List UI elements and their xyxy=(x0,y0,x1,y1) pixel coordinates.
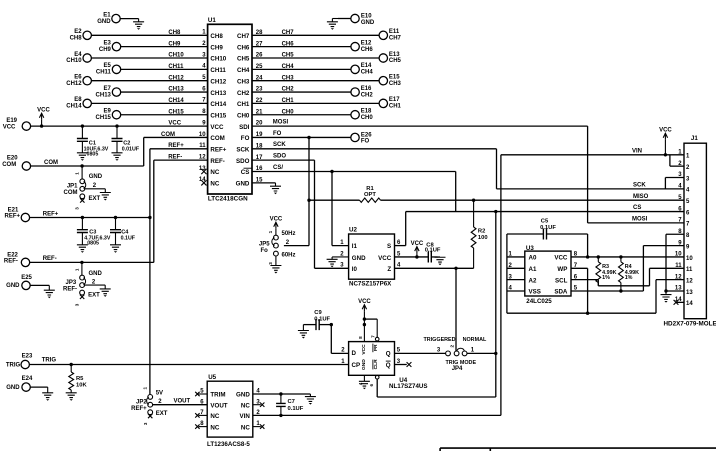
svg-text:C4: C4 xyxy=(121,230,129,236)
svg-text:CP: CP xyxy=(352,362,361,369)
svg-text:0.1UF: 0.1UF xyxy=(540,225,556,231)
svg-text:CH12: CH12 xyxy=(210,78,226,85)
svg-text:E16: E16 xyxy=(361,86,372,92)
U5 NC pin7 X xyxy=(195,413,207,417)
svg-text:REF+: REF+ xyxy=(4,213,20,219)
svg-text:NC7SZ157P6X: NC7SZ157P6X xyxy=(349,281,392,288)
svg-text:12: 12 xyxy=(675,274,682,280)
svg-text:SDO: SDO xyxy=(236,158,250,165)
svg-text:CH0: CH0 xyxy=(237,112,250,119)
svg-text:14: 14 xyxy=(686,301,693,307)
wire MOSI net U1 SDI pin20 to J1 pin7 xyxy=(252,120,684,223)
power VCC arrow at E19 xyxy=(37,108,50,128)
wire U3 ground loop left xyxy=(507,234,525,313)
svg-text:SDA: SDA xyxy=(554,289,568,296)
svg-text:50Hz: 50Hz xyxy=(282,231,296,237)
svg-text:CH13: CH13 xyxy=(168,87,184,93)
wire REF+ riser to U1 pin11 and down to JP2 5V xyxy=(148,143,207,394)
capacitor C2 0.01UF xyxy=(112,124,140,152)
svg-text:CH12: CH12 xyxy=(66,81,82,87)
svg-text:CH9: CH9 xyxy=(99,47,112,53)
svg-text:VOUT: VOUT xyxy=(210,402,227,409)
svg-text:CH8: CH8 xyxy=(70,36,83,42)
svg-text:GND: GND xyxy=(236,392,250,399)
svg-text:MOSI: MOSI xyxy=(273,120,289,126)
svg-text:CH3: CH3 xyxy=(389,81,402,87)
svg-text:J1: J1 xyxy=(691,135,698,142)
svg-text:CH2: CH2 xyxy=(282,87,295,93)
U5 TRIM no-connect X xyxy=(195,392,207,396)
U1 NC pin 13 no-connect X xyxy=(201,169,206,174)
svg-text:GND: GND xyxy=(89,174,103,180)
svg-text:E19: E19 xyxy=(6,118,17,124)
wire CS vertical to U4 CLR xyxy=(377,212,496,397)
svg-text:Q: Q xyxy=(386,362,391,369)
wire VIN vertical J1 pin1 to U5 VIN xyxy=(500,155,502,416)
svg-text:COM: COM xyxy=(2,162,16,168)
junction CS to U4 CLR branch xyxy=(494,210,497,213)
capacitor C1 10UF 6.3V 0805 xyxy=(77,124,109,157)
wire J1 pin2 tie to pin1 xyxy=(670,155,684,166)
svg-text:E13: E13 xyxy=(389,52,400,58)
svg-text:CH15: CH15 xyxy=(96,115,112,121)
svg-text:E24: E24 xyxy=(22,376,33,382)
terminal E23 TRIG xyxy=(6,354,33,369)
svg-text:GND: GND xyxy=(6,283,20,289)
resistor R1 OPT in MISO row xyxy=(307,186,684,203)
svg-text:NC: NC xyxy=(241,424,250,431)
svg-text:VCC: VCC xyxy=(210,124,224,131)
svg-text:E20: E20 xyxy=(7,156,18,162)
svg-text:CH5: CH5 xyxy=(237,56,250,63)
svg-text:CS/: CS/ xyxy=(273,165,283,171)
svg-text:CH13: CH13 xyxy=(96,92,112,98)
svg-text:CH11: CH11 xyxy=(96,70,112,76)
wire U3 SCL pin6 to J1 pin11 xyxy=(571,268,684,286)
U5 NC pin3 X xyxy=(253,403,265,407)
svg-text:CH10: CH10 xyxy=(210,56,226,63)
svg-text:E6: E6 xyxy=(74,75,82,81)
svg-text:GND: GND xyxy=(6,385,20,391)
svg-text:CH14: CH14 xyxy=(210,101,226,108)
jumper JP5 Fo 50Hz/60Hz xyxy=(259,231,296,258)
terminal E18 CH0 with wire from U1 pin 21 xyxy=(252,109,373,121)
ground at E25 xyxy=(44,285,55,298)
svg-text:CH9: CH9 xyxy=(210,44,223,51)
svg-text:CH7: CH7 xyxy=(282,30,295,36)
svg-text:SDI: SDI xyxy=(239,124,250,131)
svg-text:NC: NC xyxy=(241,402,250,409)
ground at U5 GND xyxy=(305,397,316,405)
svg-text:GND: GND xyxy=(361,359,367,370)
svg-text:CH2: CH2 xyxy=(361,92,374,98)
svg-text:CH3: CH3 xyxy=(237,78,250,85)
svg-text:SCK: SCK xyxy=(273,142,286,148)
terminal E3 CH9 with wire to U1 pin 2 xyxy=(99,40,208,52)
svg-text:1: 1 xyxy=(74,268,79,271)
svg-text:NORMAL: NORMAL xyxy=(463,337,487,343)
svg-text:E25: E25 xyxy=(21,275,32,281)
svg-text:CS: CS xyxy=(633,205,641,211)
wire SCK net U1 pin18 to J1 pin4 xyxy=(252,142,684,189)
svg-text:VCC: VCC xyxy=(554,255,568,262)
wire CS row down to J1 pin6 xyxy=(395,172,685,246)
svg-text:60Hz: 60Hz xyxy=(282,252,296,258)
svg-text:CH11: CH11 xyxy=(168,64,184,70)
svg-text:12: 12 xyxy=(686,278,693,284)
svg-text:24LC025: 24LC025 xyxy=(526,298,552,305)
ground at E1 xyxy=(133,19,144,30)
ground at U1 pin15 xyxy=(252,183,281,194)
wire U4 PR to VCC xyxy=(364,319,379,341)
ground at U2 GND pin2 xyxy=(327,257,349,267)
svg-text:1: 1 xyxy=(75,172,80,175)
wire U2 VCC pin5 xyxy=(395,255,429,258)
R3 R4 top junctions on VCC row xyxy=(597,255,623,286)
svg-text:CS: CS xyxy=(241,169,250,176)
svg-text:EXT: EXT xyxy=(88,292,100,298)
svg-text:E5: E5 xyxy=(104,63,112,69)
svg-text:FO: FO xyxy=(273,131,282,137)
power VCC arrow at U2 xyxy=(411,241,424,257)
resistor R4 4.99K 1% xyxy=(619,262,640,291)
svg-text:CH8: CH8 xyxy=(168,30,181,36)
svg-text:2: 2 xyxy=(450,344,455,347)
wire FO net U1 pin19 to E26 and JP5 xyxy=(252,131,351,246)
svg-text:COM: COM xyxy=(44,160,58,166)
J1 pin14 no-connect X xyxy=(674,300,684,305)
svg-text:GND: GND xyxy=(97,19,111,25)
svg-text:E4: E4 xyxy=(74,52,82,58)
ground at C9 xyxy=(298,325,309,339)
svg-text:SCK: SCK xyxy=(633,182,646,188)
svg-text:CH13: CH13 xyxy=(210,90,226,97)
wire VIN J1 pin1 xyxy=(501,149,684,155)
terminal E17 CH1 with wire from U1 pin 22 xyxy=(252,97,402,109)
svg-text:LTC2418CGN: LTC2418CGN xyxy=(208,196,248,203)
svg-text:R2: R2 xyxy=(478,228,485,234)
svg-text:E23: E23 xyxy=(22,354,33,360)
capacitor C7 0.1UF at U5 xyxy=(276,392,304,417)
svg-text:SDO: SDO xyxy=(273,154,286,160)
svg-text:E10: E10 xyxy=(361,13,372,19)
U1 CS pin overline xyxy=(244,167,252,169)
svg-text:VOUT: VOUT xyxy=(174,398,191,404)
svg-text:0.1UF: 0.1UF xyxy=(121,236,136,242)
svg-text:CH4: CH4 xyxy=(282,64,295,70)
svg-text:1: 1 xyxy=(268,230,273,233)
svg-text:E1: E1 xyxy=(103,12,111,18)
svg-text:3: 3 xyxy=(143,422,148,425)
svg-text:CH6: CH6 xyxy=(361,47,374,53)
svg-text:CH15: CH15 xyxy=(210,112,226,119)
svg-text:TRIG: TRIG xyxy=(42,357,57,363)
terminal E15 CH3 with wire from U1 pin 24 xyxy=(252,75,402,87)
terminal E20 COM xyxy=(2,156,30,171)
svg-text:GND: GND xyxy=(352,255,366,262)
ground under C2 xyxy=(112,153,123,161)
wire U3 SDA pin5 to J1 pin9 xyxy=(571,246,684,293)
svg-text:4: 4 xyxy=(358,382,363,385)
svg-text:TRIG: TRIG xyxy=(6,362,21,368)
svg-text:NC: NC xyxy=(210,181,219,188)
svg-text:CH3: CH3 xyxy=(282,75,295,81)
svg-text:JP2: JP2 xyxy=(136,400,147,406)
jumper JP2 REF+ 5V/EXT xyxy=(131,386,168,425)
svg-text:OPT: OPT xyxy=(364,192,376,198)
flip-flop U4 NL17SZ74US box xyxy=(341,342,427,391)
terminal E19 VCC xyxy=(3,118,31,130)
svg-text:CH6: CH6 xyxy=(237,44,250,51)
wire CS net U1 pin16 branch to U2 I1 xyxy=(252,165,456,246)
svg-text:3: 3 xyxy=(75,207,80,210)
svg-text:MISO: MISO xyxy=(633,194,649,200)
svg-text:TRIG MODE: TRIG MODE xyxy=(446,360,477,366)
svg-text:FO: FO xyxy=(361,139,370,145)
resistor R2 100 xyxy=(471,199,487,269)
svg-text:REF+: REF+ xyxy=(43,212,59,218)
svg-text:0.01UF: 0.01UF xyxy=(122,146,140,152)
wire REF- row E22 to riser to U1 pin12 xyxy=(30,154,208,262)
svg-text:Fo: Fo xyxy=(260,248,268,254)
svg-text:1%: 1% xyxy=(625,275,633,281)
terminal E9 CH15 with wire to U1 pin 8 xyxy=(96,109,208,121)
terminal E11 CH7 with wire from U1 pin 28 xyxy=(252,29,402,41)
power VCC arrow at JP5 xyxy=(270,217,283,236)
svg-text:U3: U3 xyxy=(526,245,534,252)
jumper JP3 REF- xyxy=(63,261,103,307)
svg-text:COM: COM xyxy=(210,135,224,142)
resistor R5 10K on TRIG xyxy=(69,363,88,393)
svg-text:CH4: CH4 xyxy=(237,67,250,74)
terminal E6 CH12 with wire to U1 pin 5 xyxy=(66,75,207,87)
resistor R3 4.99K 1% xyxy=(596,262,617,283)
ground under R5 xyxy=(66,393,77,401)
svg-text:NC: NC xyxy=(210,424,219,431)
capacitor C3 4.7UF 6.3V 0805 xyxy=(77,216,111,247)
svg-text:GND: GND xyxy=(236,181,250,188)
ground at E24 xyxy=(42,387,53,401)
svg-text:JP5: JP5 xyxy=(259,242,270,248)
wire TRIG row to U4 CP xyxy=(29,357,348,364)
wire ground loop bottom to J1 pin12 xyxy=(507,280,684,314)
wire U5 VIN pin2 to VIN vertical xyxy=(253,414,501,416)
wire VCC row E19 to U1 pin9 xyxy=(31,121,208,127)
svg-text:CH0: CH0 xyxy=(361,115,374,121)
svg-text:11: 11 xyxy=(675,263,682,269)
wire J1 pin3 tie to pin4 xyxy=(665,178,684,189)
svg-text:10K: 10K xyxy=(76,383,87,389)
svg-text:R5: R5 xyxy=(76,376,84,382)
svg-text:A0: A0 xyxy=(529,255,537,262)
svg-text:REF-: REF- xyxy=(210,158,224,165)
svg-text:U5: U5 xyxy=(208,374,216,381)
terminal E14 CH4 with wire from U1 pin 25 xyxy=(252,63,373,75)
ground at E10 xyxy=(327,19,338,30)
terminal E26 FO xyxy=(351,132,372,144)
ground under C3 xyxy=(77,245,88,253)
capacitor C5 0.1UF at U3 xyxy=(507,219,588,240)
ground under C1 xyxy=(77,153,88,161)
wire C9 junction down to U4 D xyxy=(330,323,349,354)
jumper JP1 COM xyxy=(64,164,103,209)
svg-text:REF-: REF- xyxy=(168,154,182,160)
svg-text:E2: E2 xyxy=(74,29,82,35)
wire JP4 NORMAL to CS vertical xyxy=(467,352,497,355)
svg-text:E17: E17 xyxy=(389,97,400,103)
U1 NC pin 14 no-connect X xyxy=(201,180,206,185)
svg-text:CH4: CH4 xyxy=(361,70,374,76)
svg-text:VCC: VCC xyxy=(3,125,16,131)
svg-text:VCC: VCC xyxy=(659,127,672,133)
svg-text:I0: I0 xyxy=(352,266,358,273)
terminal E25 GND xyxy=(6,275,49,290)
svg-text:REF+: REF+ xyxy=(131,406,147,412)
svg-text:A1: A1 xyxy=(529,266,537,273)
terminal E22 REF- xyxy=(4,253,30,267)
svg-text:CH5: CH5 xyxy=(389,58,402,64)
svg-text:VCC: VCC xyxy=(361,344,367,355)
svg-text:10: 10 xyxy=(675,252,682,258)
terminal E13 CH5 with wire from U1 pin 26 xyxy=(252,52,402,64)
wire J1 pin13 stub with ground xyxy=(664,289,684,292)
svg-text:1%: 1% xyxy=(602,275,610,281)
svg-text:JP4: JP4 xyxy=(452,366,463,372)
svg-text:8: 8 xyxy=(358,336,363,339)
svg-text:Q: Q xyxy=(386,350,391,357)
svg-text:E9: E9 xyxy=(104,109,112,115)
svg-text:11: 11 xyxy=(686,267,693,273)
terminal E1 GND xyxy=(97,12,138,24)
wire U3 VCC pin8 row to J1 pin10 xyxy=(571,256,684,258)
svg-text:CH9: CH9 xyxy=(168,41,181,47)
svg-text:LT1236ACS8-5: LT1236ACS8-5 xyxy=(207,441,250,448)
svg-text:REF+: REF+ xyxy=(168,143,184,149)
wire COM row to U1 pin10 xyxy=(31,132,208,166)
ground at J1 pin13 xyxy=(661,291,672,303)
svg-text:FO: FO xyxy=(241,135,250,142)
wire C5 to VCC row xyxy=(586,234,589,259)
wire J1 pin8 tie down to pin13 xyxy=(666,234,684,291)
svg-text:0805: 0805 xyxy=(87,240,99,246)
svg-text:REF-: REF- xyxy=(4,258,18,264)
svg-text:1: 1 xyxy=(143,386,148,389)
terminal E4 CH10 with wire to U1 pin 3 xyxy=(66,52,207,64)
svg-text:6: 6 xyxy=(369,383,374,386)
svg-text:TRIGGERED: TRIGGERED xyxy=(424,337,456,343)
wire SDO net U1 pin17 to U2 I0 xyxy=(252,154,349,269)
U4 CLR bubble and pin numbers xyxy=(358,375,379,386)
U5 NC pin8 X xyxy=(195,424,207,428)
svg-text:E14: E14 xyxy=(361,63,372,69)
svg-text:REF-: REF- xyxy=(43,256,57,262)
svg-text:E26: E26 xyxy=(361,132,372,138)
svg-text:CH14: CH14 xyxy=(168,98,184,104)
svg-text:0.1UF: 0.1UF xyxy=(425,248,441,254)
svg-text:CH7: CH7 xyxy=(237,33,250,40)
svg-text:Z: Z xyxy=(387,266,391,273)
svg-text:VCC: VCC xyxy=(358,299,371,305)
svg-text:VCC: VCC xyxy=(411,241,424,247)
svg-text:SCK: SCK xyxy=(236,147,250,154)
svg-text:S: S xyxy=(387,243,391,250)
svg-text:NC: NC xyxy=(210,169,219,176)
svg-text:MOSI: MOSI xyxy=(632,217,648,223)
svg-text:E8: E8 xyxy=(74,97,82,103)
wire U5 GND pin4 to ground xyxy=(253,394,311,397)
svg-text:CH7: CH7 xyxy=(389,36,402,42)
svg-text:0.1UF: 0.1UF xyxy=(314,316,330,322)
svg-text:CH15: CH15 xyxy=(168,109,184,115)
svg-text:C9: C9 xyxy=(314,310,322,316)
svg-text:E7: E7 xyxy=(104,86,112,92)
svg-text:I1: I1 xyxy=(352,243,358,250)
svg-text:NC: NC xyxy=(210,413,219,420)
svg-text:E11: E11 xyxy=(389,29,400,35)
power VCC arrow above U4 xyxy=(358,299,371,342)
svg-text:REF-: REF- xyxy=(63,287,77,293)
svg-text:VCC: VCC xyxy=(378,255,392,262)
ground at U4 GND pin xyxy=(359,375,370,389)
svg-text:VCC: VCC xyxy=(270,217,283,223)
svg-text:NL17SZ74US: NL17SZ74US xyxy=(389,383,428,390)
svg-text:C7: C7 xyxy=(288,399,295,405)
terminal E10 GND xyxy=(338,13,375,25)
svg-text:7: 7 xyxy=(371,335,376,338)
svg-text:E3: E3 xyxy=(104,40,112,46)
IC U1 LTC2418CGN box xyxy=(208,24,252,194)
svg-text:CLR: CLR xyxy=(373,359,379,370)
svg-text:EXT: EXT xyxy=(156,411,168,417)
ground under JP5 xyxy=(268,256,282,274)
svg-text:U2: U2 xyxy=(349,227,357,234)
terminal E2 CH8 with wire to U1 pin 1 xyxy=(70,29,208,41)
terminal E24 GND xyxy=(6,376,47,391)
svg-text:CH8: CH8 xyxy=(210,33,223,40)
svg-text:CH1: CH1 xyxy=(389,104,402,110)
terminal E16 CH2 with wire from U1 pin 23 xyxy=(252,86,373,98)
ground at JP1 xyxy=(100,193,111,201)
svg-text:SCL: SCL xyxy=(555,277,568,284)
wire VOUT U5 pin6 to JP2 xyxy=(153,398,208,405)
wire U3 WP pin7 to ground loop xyxy=(571,268,589,315)
wire U4 Q to JP4 xyxy=(395,347,446,353)
terminal E8 CH14 with wire to U1 pin 7 xyxy=(66,97,207,109)
capacitor C8 0.1UF at U2 xyxy=(425,243,441,263)
svg-text:0.1UF: 0.1UF xyxy=(288,406,304,412)
svg-text:13: 13 xyxy=(686,290,693,296)
svg-text:5V: 5V xyxy=(156,391,163,397)
svg-text:100: 100 xyxy=(478,235,488,241)
U1 pin names and numbers xyxy=(199,30,263,188)
svg-text:D: D xyxy=(352,350,357,357)
svg-text:3: 3 xyxy=(74,303,79,306)
jumper JP4 TRIGMODE xyxy=(424,337,487,372)
wire JP3 pin1 to ground xyxy=(85,285,106,289)
svg-text:CH6: CH6 xyxy=(282,41,295,47)
svg-text:VSS: VSS xyxy=(529,289,541,296)
svg-text:CH12: CH12 xyxy=(168,75,184,81)
svg-text:CH10: CH10 xyxy=(168,53,184,59)
capacitor C9 0.1UF at U4 xyxy=(303,310,331,330)
svg-text:COM: COM xyxy=(64,190,78,196)
svg-text:C5: C5 xyxy=(541,219,549,225)
eeprom U3 24LC025 box xyxy=(508,245,577,305)
svg-text:A2: A2 xyxy=(529,277,537,284)
svg-text:E15: E15 xyxy=(389,75,400,81)
wire JP1 pin1 to ground xyxy=(85,189,106,193)
svg-text:3: 3 xyxy=(268,262,273,265)
